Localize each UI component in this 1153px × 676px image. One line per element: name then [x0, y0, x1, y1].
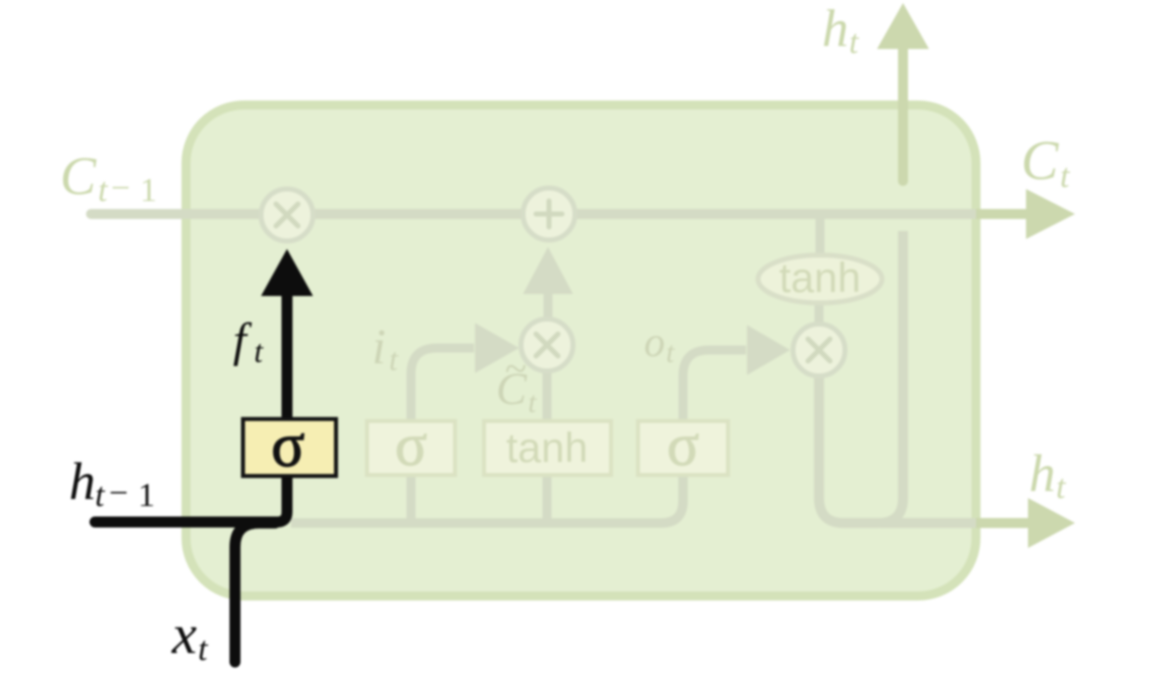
wire: black forget-gate output line above sigma box	[282, 294, 293, 419]
svg-text:i: i	[372, 318, 386, 374]
wire: h-line exit segment	[976, 518, 1030, 528]
svg-text:−: −	[111, 170, 130, 207]
wire: h_t vertical above C-line crossing gap	[898, 49, 908, 181]
wire: cell-state line C	[91, 209, 1000, 219]
svg-text:t: t	[389, 341, 399, 377]
wire: input-gate curve i	[411, 348, 474, 421]
gate: highlighted yellow sigma box (forget gate)	[243, 419, 336, 476]
svg-text:t: t	[1060, 158, 1071, 195]
svg-text:t: t	[254, 333, 264, 369]
wire: black x_t input line merging into h line	[235, 523, 275, 662]
wire: C-line down to tanh ellipse	[816, 214, 825, 256]
gate: faded sigma box 3 (output gate)	[638, 421, 728, 475]
node: forget multiply circle on C-line	[261, 189, 313, 241]
arrowhead: forget gate into multiply node	[261, 249, 313, 296]
svg-text:h: h	[1029, 445, 1056, 503]
wire: output path down and right to h-line	[819, 231, 903, 523]
op: tanh ellipse	[758, 255, 882, 303]
svg-text:t: t	[528, 386, 537, 419]
svg-text:−: −	[109, 475, 128, 512]
svg-text:h: h	[69, 453, 96, 511]
svg-text:σ: σ	[667, 412, 699, 478]
arrowhead: C_t output	[1026, 189, 1075, 239]
svg-text:σ: σ	[271, 412, 304, 480]
svg-text:tanh: tanh	[779, 254, 861, 301]
svg-text:σ: σ	[395, 412, 427, 478]
svg-text:C: C	[60, 146, 97, 206]
node: input multiply circle	[521, 319, 573, 371]
wire: C-line exit segment	[976, 209, 1030, 219]
node: plus circle on C-line	[523, 188, 575, 240]
node: output multiply circle	[793, 324, 845, 376]
wire: tanh ellipse down to output multiply node	[815, 303, 824, 325]
arrowhead: h_t top output	[877, 3, 929, 49]
svg-text:1: 1	[140, 172, 157, 209]
cell body rounded rectangle	[186, 105, 976, 596]
svg-text:h: h	[822, 0, 849, 58]
wire: stem above tanh box to multiply node	[543, 371, 552, 421]
svg-text:tanh: tanh	[506, 424, 588, 471]
svg-text:t: t	[666, 336, 675, 369]
wire: output-gate curve o	[683, 350, 746, 421]
wire: stem below sigma box 2	[407, 476, 416, 520]
arrowhead: candidate into plus node	[523, 247, 573, 294]
svg-text:C: C	[1021, 130, 1059, 192]
svg-text:t: t	[1056, 469, 1067, 506]
svg-text:t: t	[198, 631, 209, 668]
wire: candidate arrow from multiply node up to plus node	[544, 293, 553, 318]
arrowhead: h_t right output	[1028, 498, 1075, 548]
svg-text:t: t	[98, 172, 109, 209]
svg-text:o: o	[644, 320, 665, 366]
svg-text:t: t	[95, 477, 106, 514]
arrowhead: output gate into multiply node	[747, 325, 790, 375]
arrowhead: input gate into multiply node	[475, 323, 519, 373]
wire: faded h-line inside cell	[291, 476, 683, 523]
svg-text:~: ~	[505, 346, 527, 391]
gate: faded sigma box 2 (input gate)	[367, 421, 455, 475]
wire: stem below tanh box	[543, 476, 552, 520]
gate: faded tanh box	[484, 421, 611, 475]
svg-text:1: 1	[138, 477, 155, 514]
svg-text:x: x	[171, 604, 197, 666]
wire: h-line to right exit	[880, 518, 1000, 528]
svg-text:t: t	[849, 24, 860, 61]
wire: black h_{t-1} input line with turn up to sigma gate	[95, 419, 287, 522]
